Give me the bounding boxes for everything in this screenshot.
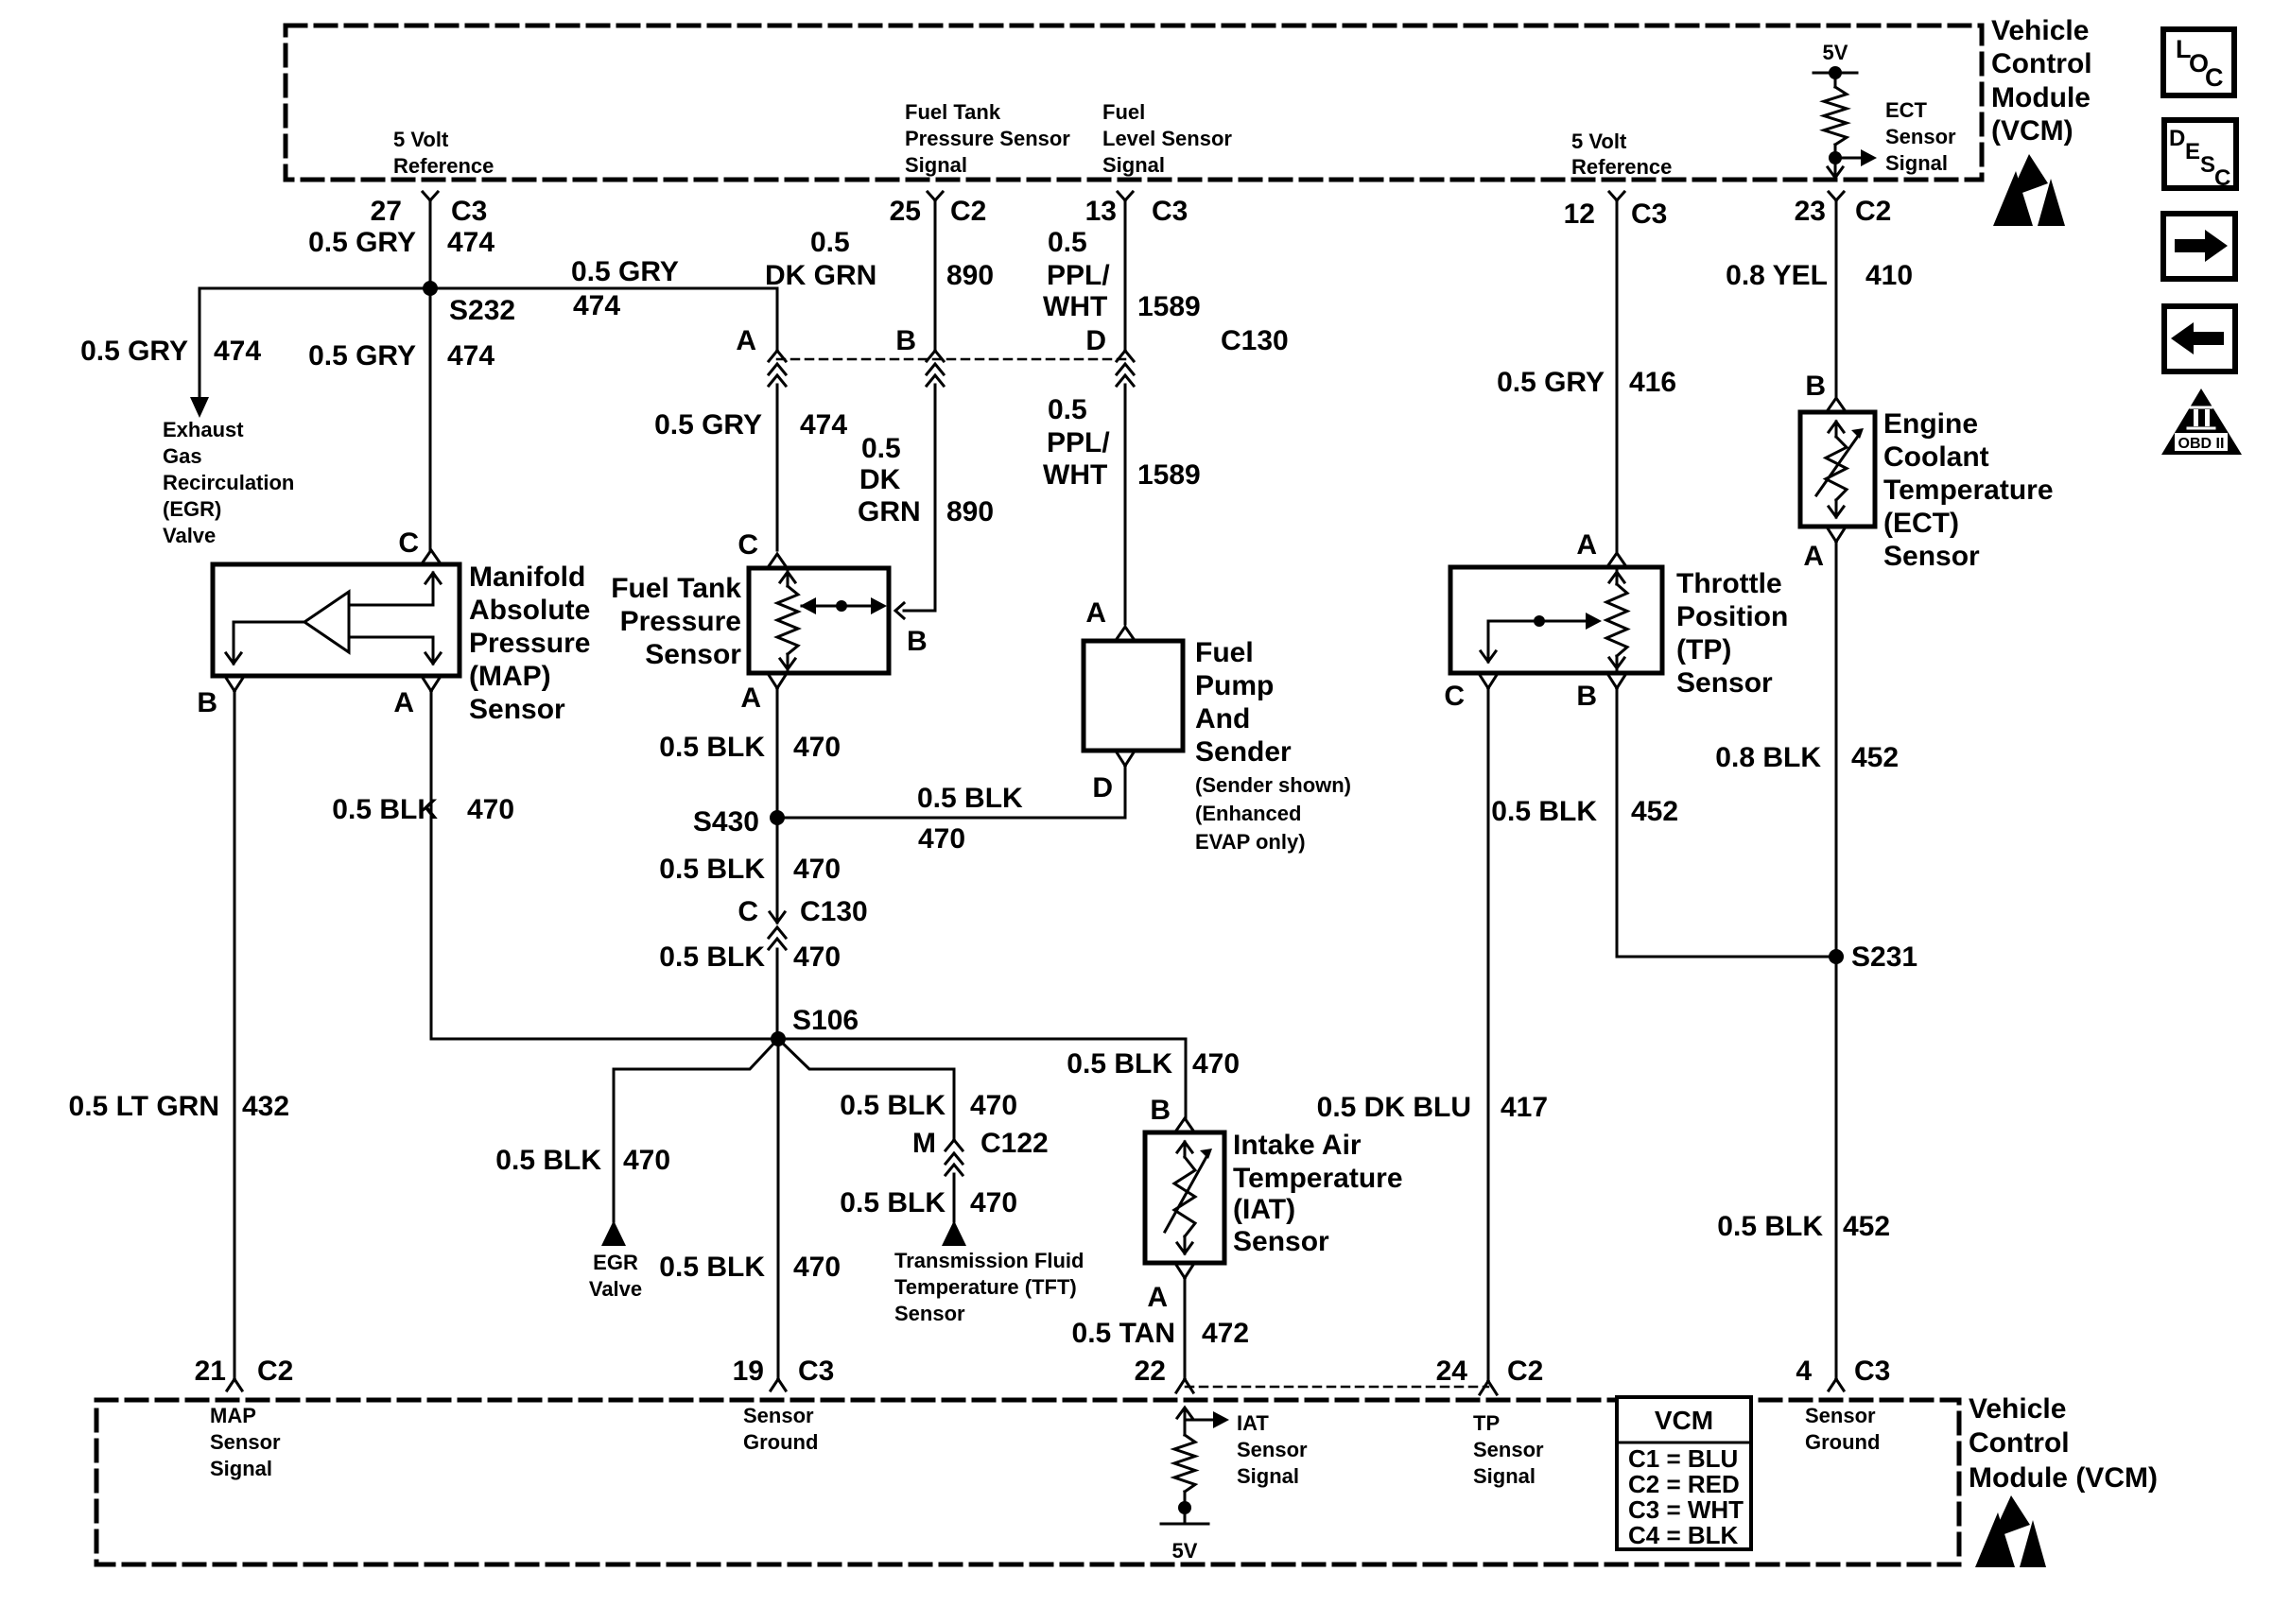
wire 432 MAP B to pin 21 (234, 691, 236, 1379)
wire 472 IAT A to pin 22 (1184, 1278, 1187, 1379)
wire 470 C130-C to S106 (776, 949, 779, 1039)
svg-text:0.5 BLK: 0.5 BLK (332, 794, 438, 825)
IAT sensor pin B (1176, 1118, 1193, 1131)
fuel tank pressure sensor pin B (895, 603, 904, 618)
wire 470 C122 to TFT sensor (953, 1174, 956, 1221)
svg-text:Sensor: Sensor (1233, 1226, 1329, 1257)
junction dot ECT signal branch (1829, 151, 1842, 164)
svg-text:1589: 1589 (1137, 459, 1201, 491)
svg-text:Fuel Tank: Fuel Tank (905, 100, 1001, 124)
resistor IAT pull-up (inside VCM) (1174, 1435, 1195, 1492)
MAP sensor pin B (226, 678, 234, 691)
svg-text:0.5: 0.5 (1048, 394, 1087, 425)
svg-text:Sensor: Sensor (210, 1430, 281, 1454)
svg-text:A: A (1085, 597, 1106, 629)
svg-text:PPL/: PPL/ (1047, 260, 1110, 291)
MAP internal line to pin A (349, 636, 433, 639)
MAP sensor box (213, 564, 460, 676)
svg-text:D: D (2169, 126, 2185, 151)
TP sensor wiper arrow (1488, 620, 1585, 623)
svg-text:410: 410 (1865, 260, 1913, 291)
IAT sensor signal branch arrow (1185, 1419, 1214, 1422)
svg-text:Vehicle: Vehicle (1969, 1393, 2066, 1425)
svg-text:Sensor: Sensor (894, 1302, 965, 1325)
wire 452 S231 to pin 4 (1835, 957, 1838, 1379)
legend LOC box (2163, 29, 2234, 95)
svg-text:WHT: WHT (1043, 459, 1107, 491)
svg-text:0.8 BLK: 0.8 BLK (1715, 742, 1821, 773)
fuel pump pin A (1117, 627, 1134, 639)
svg-text:C3 = WHT: C3 = WHT (1628, 1495, 1744, 1524)
splice S106 (771, 1031, 786, 1046)
svg-text:C3: C3 (1854, 1356, 1890, 1387)
resistor ECT pull-up (inside VCM) (1834, 73, 1837, 87)
svg-text:C2: C2 (1507, 1356, 1543, 1387)
svg-text:0.5 BLK: 0.5 BLK (659, 942, 765, 973)
wire 452 TP B to S231 (1616, 688, 1619, 957)
svg-text:0.5 GRY: 0.5 GRY (308, 227, 416, 258)
svg-text:Ground: Ground (743, 1430, 818, 1454)
svg-text:Level Sensor: Level Sensor (1102, 127, 1232, 150)
svg-text:C: C (737, 529, 758, 561)
svg-text:B: B (907, 626, 928, 657)
svg-text:TP: TP (1473, 1411, 1500, 1435)
svg-text:Temperature: Temperature (1883, 475, 2054, 506)
pin 23 C2 (ECT Sensor Signal) (1829, 192, 1836, 200)
wire 470 ground bus to IAT pin B (1185, 1039, 1188, 1119)
pin 24 C2 (TP Sensor Signal) (1480, 1381, 1488, 1394)
svg-text:13: 13 (1085, 196, 1117, 227)
svg-text:Sensor: Sensor (1885, 125, 1956, 148)
svg-text:C2: C2 (1855, 196, 1891, 227)
junction dot IAT pull-up (1178, 1501, 1191, 1514)
svg-text:470: 470 (467, 794, 514, 825)
wire S106 branch to TFT sensor (778, 1039, 954, 1069)
svg-text:C130: C130 (1221, 325, 1289, 356)
connector C130 pin B (927, 351, 935, 361)
wire 417 TP C to pin 24 (1487, 688, 1490, 1379)
svg-text:Position: Position (1676, 601, 1788, 632)
svg-text:Reference: Reference (393, 154, 494, 178)
MAP sensor pin A (423, 678, 431, 691)
svg-text:Intake Air: Intake Air (1233, 1130, 1362, 1161)
svg-text:Module (VCM): Module (VCM) (1969, 1462, 2158, 1494)
MAP sensor internal amplifier triangle (304, 592, 349, 652)
svg-text:21: 21 (195, 1356, 226, 1387)
TP sensor pin A (1608, 553, 1625, 565)
svg-text:IAT: IAT (1237, 1411, 1269, 1435)
svg-text:Vehicle: Vehicle (1991, 15, 2089, 46)
svg-text:Signal: Signal (1885, 151, 1948, 175)
svg-text:0.5 BLK: 0.5 BLK (840, 1090, 946, 1121)
svg-text:S430: S430 (693, 806, 759, 838)
svg-text:5 Volt: 5 Volt (1571, 130, 1627, 153)
svg-text:Sensor: Sensor (1676, 667, 1773, 699)
fuel tank pressure sensor resistor (787, 568, 789, 586)
pin 4 C3 (Sensor Ground right) (1829, 1379, 1836, 1391)
svg-text:Engine: Engine (1883, 408, 1978, 440)
svg-text:0.5 BLK: 0.5 BLK (1717, 1211, 1823, 1242)
svg-text:22: 22 (1135, 1356, 1166, 1387)
svg-text:Control: Control (1991, 48, 2092, 79)
legend OBD II triangle (2161, 389, 2242, 455)
wire 1589 pin13 to C130-D (1124, 200, 1127, 351)
MAP sensor pin C (423, 550, 440, 562)
TP sensor pin C (1480, 675, 1488, 688)
IAT sensor thermistor (1184, 1142, 1187, 1157)
svg-text:4: 4 (1796, 1356, 1812, 1387)
splice S232 (423, 281, 438, 296)
svg-text:C3: C3 (1152, 196, 1188, 227)
svg-text:C3: C3 (798, 1356, 834, 1387)
svg-text:B: B (1576, 681, 1597, 712)
svg-text:Coolant: Coolant (1883, 441, 1989, 473)
svg-text:5V: 5V (1172, 1539, 1198, 1563)
svg-text:B: B (197, 687, 217, 718)
svg-text:0.5 BLK: 0.5 BLK (659, 1252, 765, 1283)
arrow to EGR valve (190, 397, 209, 418)
wire 1589 C130-D to fuel pump pin A (1124, 385, 1127, 624)
connector dashed line pins 22-24 (1186, 1386, 1488, 1389)
svg-text:Manifold: Manifold (469, 561, 585, 593)
svg-text:417: 417 (1501, 1092, 1548, 1123)
svg-text:A: A (736, 325, 756, 356)
svg-text:Sensor: Sensor (1237, 1438, 1308, 1461)
svg-text:GRN: GRN (858, 496, 921, 527)
svg-text:Absolute: Absolute (469, 595, 590, 626)
svg-text:(Sender shown): (Sender shown) (1195, 773, 1351, 797)
svg-text:Temperature: Temperature (1233, 1163, 1403, 1194)
svg-text:452: 452 (1843, 1211, 1890, 1242)
wire 474 pin27 to S232 (429, 200, 432, 288)
svg-text:474: 474 (573, 290, 620, 321)
svg-text:416: 416 (1629, 367, 1676, 398)
svg-text:(TP): (TP) (1676, 634, 1731, 665)
svg-text:Fuel Tank: Fuel Tank (611, 573, 741, 604)
svg-text:Signal: Signal (1102, 153, 1165, 177)
svg-text:C2 = RED: C2 = RED (1628, 1470, 1740, 1498)
TP sensor pin B (1608, 675, 1617, 688)
svg-text:474: 474 (447, 227, 495, 258)
svg-text:(Enhanced: (Enhanced (1195, 802, 1301, 825)
svg-text:B: B (895, 325, 916, 356)
svg-text:0.5 BLK: 0.5 BLK (917, 783, 1023, 814)
svg-text:EGR: EGR (593, 1251, 638, 1274)
svg-text:0.5: 0.5 (861, 433, 901, 464)
pin 12 C3 (5 Volt Reference right) (1609, 192, 1617, 200)
svg-text:0.5 LT GRN: 0.5 LT GRN (69, 1091, 219, 1122)
svg-text:C2: C2 (257, 1356, 293, 1387)
svg-text:0.5 BLK: 0.5 BLK (495, 1145, 601, 1176)
svg-text:1589: 1589 (1137, 291, 1201, 322)
svg-text:C: C (2205, 63, 2224, 92)
svg-text:(IAT): (IAT) (1233, 1194, 1295, 1225)
svg-text:A: A (393, 687, 414, 718)
wire 410 pin 23 to ECT pin B (1835, 200, 1838, 398)
svg-text:Gas: Gas (163, 444, 202, 468)
svg-text:Recirculation: Recirculation (163, 471, 294, 494)
svg-text:C2: C2 (950, 196, 986, 227)
svg-text:470: 470 (793, 942, 841, 973)
pin 25 C2 (Fuel Tank Pressure Sensor Signal) (928, 192, 935, 200)
5V rail bar (IAT pull-up) (1184, 1508, 1187, 1524)
svg-text:474: 474 (214, 336, 261, 367)
svg-text:Sensor: Sensor (1805, 1404, 1876, 1427)
svg-text:24: 24 (1436, 1356, 1468, 1387)
wire 470 S430 to fuel pump pin D (777, 817, 1125, 820)
svg-text:0.5 TAN: 0.5 TAN (1072, 1318, 1175, 1349)
wire 474 S232 to MAP sensor pin C (429, 288, 432, 550)
svg-text:PPL/: PPL/ (1047, 427, 1110, 458)
svg-text:C: C (737, 896, 758, 927)
pin 19 C3 (Sensor Ground) (771, 1379, 778, 1391)
svg-text:890: 890 (946, 260, 994, 291)
svg-text:0.5 DK BLU: 0.5 DK BLU (1317, 1092, 1471, 1123)
svg-text:452: 452 (1851, 742, 1899, 773)
svg-text:452: 452 (1631, 796, 1678, 827)
svg-text:Valve: Valve (163, 524, 216, 547)
svg-text:Pressure Sensor: Pressure Sensor (905, 127, 1070, 150)
svg-text:470: 470 (623, 1145, 670, 1176)
arrow to TFT sensor (942, 1220, 966, 1246)
svg-text:(ECT): (ECT) (1883, 508, 1959, 539)
svg-text:Sensor: Sensor (1883, 541, 1980, 572)
svg-text:Signal: Signal (905, 153, 967, 177)
ECT sensor pin B (1828, 398, 1845, 410)
fuel tank pressure sensor wiper arrow (802, 605, 883, 608)
svg-text:WHT: WHT (1043, 291, 1107, 322)
svg-text:Pressure: Pressure (620, 606, 741, 637)
svg-text:A: A (740, 682, 761, 714)
svg-text:0.5 GRY: 0.5 GRY (1497, 367, 1605, 398)
svg-text:C: C (2214, 165, 2230, 191)
VCM top dashed box (Vehicle Control Module) (286, 26, 1982, 180)
VCM connector color legend box (1615, 1395, 1753, 1551)
svg-text:0.8 YEL: 0.8 YEL (1726, 260, 1828, 291)
svg-text:S232: S232 (449, 295, 515, 326)
svg-text:Signal: Signal (210, 1457, 272, 1480)
svg-text:Valve: Valve (589, 1277, 642, 1301)
wire 416 pin 12 to TP pin A (1616, 200, 1619, 552)
svg-text:474: 474 (800, 409, 847, 441)
svg-text:C1 = BLU: C1 = BLU (1628, 1444, 1738, 1473)
svg-text:5V: 5V (1823, 41, 1848, 64)
svg-text:Transmission Fluid: Transmission Fluid (894, 1249, 1084, 1272)
svg-text:Module: Module (1991, 82, 2091, 113)
svg-text:B: B (1805, 371, 1826, 402)
svg-text:0.5 GRY: 0.5 GRY (571, 256, 679, 287)
svg-text:0.5 BLK: 0.5 BLK (1491, 796, 1597, 827)
svg-text:C4 = BLK: C4 = BLK (1628, 1521, 1739, 1549)
fuel tank pressure sensor box (749, 568, 889, 673)
svg-text:C130: C130 (800, 896, 868, 927)
junction dot on 5V bar (1829, 66, 1842, 79)
svg-text:Exhaust: Exhaust (163, 418, 244, 441)
svg-text:890: 890 (946, 496, 994, 527)
svg-text:C122: C122 (980, 1128, 1049, 1159)
svg-text:0.5 BLK: 0.5 BLK (659, 854, 765, 885)
MAP internal line to pin B (234, 621, 304, 624)
svg-text:C: C (398, 527, 419, 559)
svg-text:470: 470 (970, 1187, 1017, 1218)
sensor ground bus wire (431, 1038, 1186, 1041)
connector C122 pin M (946, 1140, 954, 1150)
IAT sensor pin A (1176, 1265, 1185, 1278)
svg-text:Fuel: Fuel (1195, 637, 1254, 668)
svg-text:0.5 GRY: 0.5 GRY (80, 336, 188, 367)
svg-text:DK: DK (859, 464, 901, 495)
svg-text:470: 470 (793, 854, 841, 885)
svg-text:Sensor: Sensor (743, 1404, 814, 1427)
svg-text:Pressure: Pressure (469, 628, 590, 659)
svg-text:(EGR): (EGR) (163, 497, 221, 521)
svg-text:M: M (912, 1128, 936, 1159)
svg-text:Control: Control (1969, 1427, 2070, 1459)
svg-text:470: 470 (918, 823, 965, 855)
svg-text:Ground: Ground (1805, 1430, 1880, 1454)
wire 890 C130-B to fuel tank pressure sensor pin B (934, 385, 937, 611)
ECT sensor signal branch arrow (1835, 157, 1861, 160)
svg-text:470: 470 (793, 732, 841, 763)
svg-text:MAP: MAP (210, 1404, 256, 1427)
svg-text:VCM: VCM (1655, 1406, 1713, 1435)
wire ECT signal to pin 23 with down arrow (1834, 158, 1837, 178)
svg-text:EVAP only): EVAP only) (1195, 830, 1306, 854)
svg-text:25: 25 (890, 196, 921, 227)
svg-text:S: S (2200, 152, 2215, 178)
svg-text:0.5 BLK: 0.5 BLK (1067, 1048, 1172, 1080)
svg-text:0.5: 0.5 (810, 227, 850, 258)
svg-text:E: E (2185, 139, 2200, 164)
ESD sensitivity symbol top right (2009, 154, 2048, 198)
pin 21 C2 (MAP Sensor Signal) (227, 1379, 234, 1391)
pin 22 (IAT Sensor Signal) (1176, 1379, 1185, 1392)
svg-text:D: D (1092, 772, 1113, 803)
svg-text:23: 23 (1795, 196, 1826, 227)
svg-text:Temperature (TFT): Temperature (TFT) (894, 1275, 1077, 1299)
svg-text:Signal: Signal (1473, 1464, 1536, 1488)
svg-text:474: 474 (447, 340, 495, 371)
ECT sensor box (1800, 412, 1875, 527)
connector C130 pin A (769, 351, 777, 361)
svg-text:19: 19 (733, 1356, 764, 1387)
svg-text:0.5 GRY: 0.5 GRY (308, 340, 416, 371)
svg-text:12: 12 (1564, 199, 1595, 230)
svg-text:432: 432 (242, 1091, 289, 1122)
svg-text:Signal: Signal (1237, 1464, 1299, 1488)
wire 474 S232 branch to EGR valve (200, 287, 430, 290)
svg-text:(MAP): (MAP) (469, 661, 551, 692)
svg-text:0.5 GRY: 0.5 GRY (654, 409, 762, 441)
svg-text:A: A (1147, 1282, 1168, 1313)
fuel tank pressure sensor pin A (769, 675, 777, 688)
pin 13 C3 (Fuel Level Sensor Signal) (1118, 192, 1125, 200)
svg-text:0.5 BLK: 0.5 BLK (659, 732, 765, 763)
svg-text:A: A (1803, 541, 1824, 572)
splice S231 (1829, 949, 1844, 964)
svg-text:Sensor: Sensor (645, 639, 741, 670)
svg-text:And: And (1195, 703, 1250, 734)
svg-text:OBD II: OBD II (2178, 436, 2225, 452)
svg-text:D: D (1085, 325, 1106, 356)
svg-text:27: 27 (371, 196, 402, 227)
connector C130 dashed line (777, 358, 1125, 361)
svg-text:Reference: Reference (1571, 155, 1672, 179)
svg-text:Sensor: Sensor (1473, 1438, 1544, 1461)
svg-text:Pump: Pump (1195, 670, 1274, 701)
arrow to EGR valve (bottom) (601, 1220, 626, 1246)
wire 474 C130-A to fuel tank pressure sensor pin C (776, 385, 779, 550)
svg-text:Sender: Sender (1195, 736, 1292, 768)
svg-text:ECT: ECT (1885, 98, 1928, 122)
ESD sensitivity symbol bottom right (1991, 1495, 2030, 1539)
svg-text:Fuel: Fuel (1102, 100, 1145, 124)
svg-text:DK GRN: DK GRN (765, 260, 876, 291)
5V supply bar (1813, 72, 1857, 75)
svg-text:S106: S106 (792, 1005, 859, 1036)
TP sensor resistor (1616, 567, 1619, 584)
wire 890 pin25 to C130-B (934, 200, 937, 351)
svg-text:C: C (1444, 681, 1465, 712)
svg-text:(VCM): (VCM) (1991, 115, 2073, 147)
fuel pump pin D (1117, 752, 1125, 766)
MAP internal output to pin C (349, 604, 433, 607)
wire 452 ECT A to S231 (1835, 542, 1838, 957)
svg-text:0.5: 0.5 (1048, 227, 1087, 258)
pin 27 C3 (5 Volt Reference) (423, 192, 430, 200)
svg-text:0.5 BLK: 0.5 BLK (840, 1187, 946, 1218)
TP sensor box (1450, 567, 1662, 673)
fuel pump and sender box (1084, 641, 1183, 751)
connector C130 pin D (1117, 351, 1125, 361)
wire MAP A to ground bus (430, 691, 433, 1039)
connector C130 pin C (in-line) (770, 912, 785, 923)
legend right-arrow box (2163, 214, 2235, 279)
IAT sensor box (1145, 1132, 1224, 1263)
wire S106 branch to EGR valve (614, 1039, 778, 1069)
wire 474 S232 right branch to fuel tank pressure sensor (430, 287, 777, 290)
svg-text:5 Volt: 5 Volt (393, 128, 449, 151)
ECT sensor thermistor (1835, 422, 1838, 437)
wire 470 fuel tank A to S430 (776, 688, 779, 818)
svg-text:S231: S231 (1851, 942, 1917, 973)
svg-text:470: 470 (1192, 1048, 1240, 1080)
wire 470 S106 to pin 19 (777, 1039, 780, 1379)
fuel tank pressure sensor pin C (769, 554, 786, 566)
IAT signal wire inside VCM with up arrow (1184, 1409, 1187, 1435)
svg-text:Throttle: Throttle (1676, 568, 1782, 599)
svg-text:B: B (1150, 1095, 1171, 1126)
wire 470 S430 down to connector C130 pin C (776, 818, 779, 923)
svg-text:470: 470 (793, 1252, 841, 1283)
splice S430 (770, 810, 785, 825)
legend left-arrow box (2164, 306, 2235, 371)
svg-text:C3: C3 (451, 196, 487, 227)
svg-text:Sensor: Sensor (469, 694, 565, 725)
svg-text:C3: C3 (1631, 199, 1667, 230)
svg-text:A: A (1576, 529, 1597, 561)
ECT sensor pin A (1828, 528, 1836, 542)
svg-text:472: 472 (1202, 1318, 1249, 1349)
svg-text:470: 470 (970, 1090, 1017, 1121)
VCM bottom dashed box (96, 1400, 1959, 1564)
legend DESC box (2164, 120, 2236, 188)
